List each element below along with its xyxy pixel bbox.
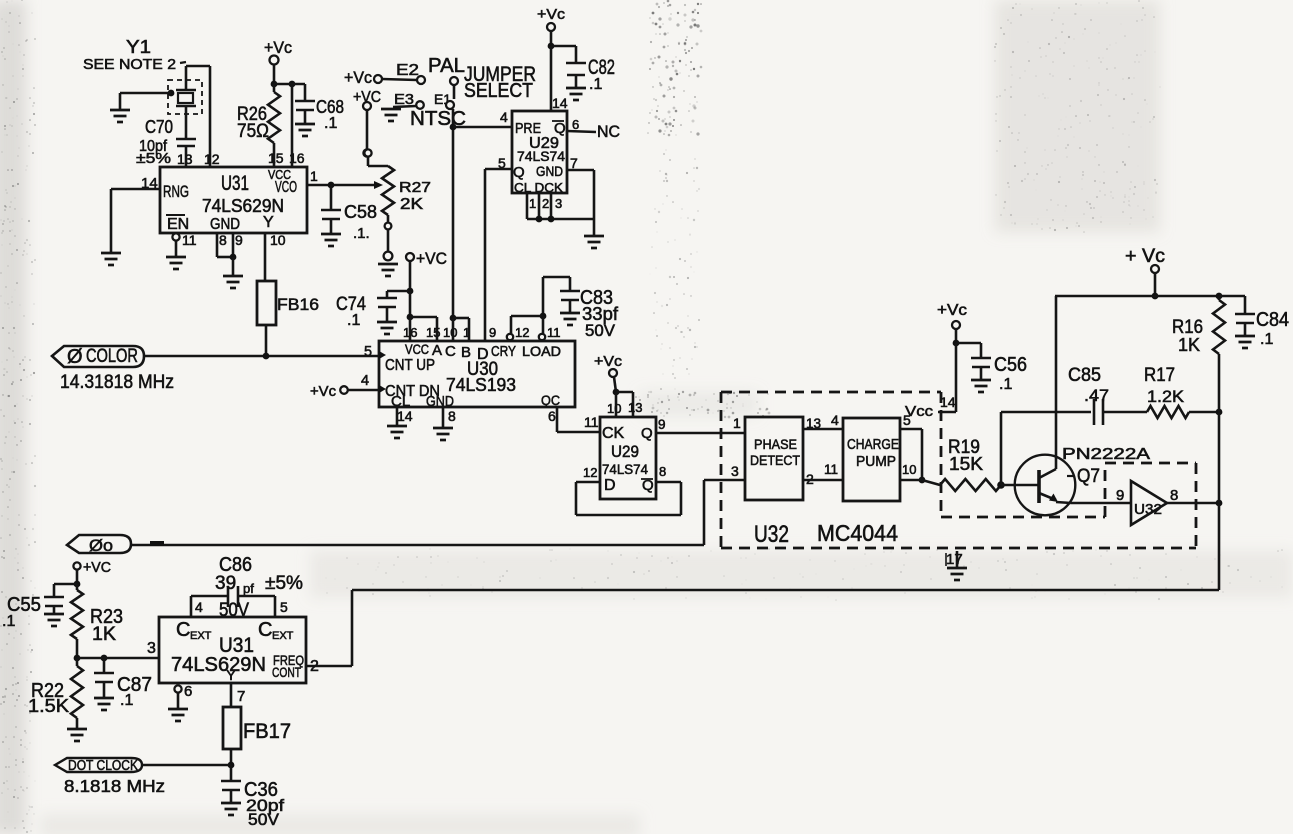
svg-text:10: 10 bbox=[443, 325, 457, 340]
svg-text:+VC: +VC bbox=[83, 559, 111, 576]
svg-text:14.31818 MHz: 14.31818 MHz bbox=[60, 372, 174, 393]
svg-text:CL DCK: CL DCK bbox=[514, 180, 563, 195]
svg-text:.1: .1 bbox=[324, 115, 337, 132]
svg-text:±5%: ±5% bbox=[136, 150, 171, 167]
svg-text:8: 8 bbox=[659, 464, 666, 479]
svg-text:12: 12 bbox=[515, 325, 529, 340]
svg-text:+Vc: +Vc bbox=[264, 38, 292, 57]
svg-text:+Vc: +Vc bbox=[310, 383, 336, 400]
svg-text:PUMP: PUMP bbox=[856, 453, 896, 470]
svg-text:.1: .1 bbox=[999, 376, 1012, 393]
svg-text:R27: R27 bbox=[399, 179, 431, 196]
svg-text:CK: CK bbox=[602, 425, 625, 442]
svg-text:FB17: FB17 bbox=[243, 720, 291, 743]
svg-text:2: 2 bbox=[310, 658, 319, 675]
svg-text:7: 7 bbox=[237, 688, 245, 705]
svg-text:Q: Q bbox=[513, 164, 525, 181]
svg-text:C: C bbox=[258, 619, 272, 641]
svg-text:C84: C84 bbox=[1256, 309, 1289, 331]
svg-text:15K: 15K bbox=[949, 454, 983, 474]
svg-text:+ Vc: + Vc bbox=[1125, 246, 1165, 267]
svg-text:6: 6 bbox=[548, 408, 556, 424]
svg-text:.1: .1 bbox=[589, 76, 602, 93]
svg-text:13: 13 bbox=[628, 400, 642, 415]
svg-text:MC4044: MC4044 bbox=[817, 520, 898, 546]
svg-text:Y: Y bbox=[263, 214, 274, 231]
svg-text:50V: 50V bbox=[585, 321, 616, 340]
svg-text:14: 14 bbox=[940, 394, 956, 410]
svg-text:3: 3 bbox=[147, 640, 156, 657]
svg-text:C85: C85 bbox=[1068, 365, 1101, 386]
svg-text:Q7: Q7 bbox=[1077, 466, 1100, 487]
svg-text:+Vc: +Vc bbox=[594, 353, 623, 370]
svg-text:D: D bbox=[604, 477, 616, 494]
svg-text:14: 14 bbox=[397, 408, 413, 424]
svg-text:+Vc: +Vc bbox=[344, 68, 372, 87]
svg-text:C56: C56 bbox=[994, 354, 1027, 376]
svg-text:VCO: VCO bbox=[275, 179, 297, 196]
svg-text:EXT: EXT bbox=[190, 630, 212, 642]
svg-text:FB16: FB16 bbox=[277, 295, 319, 314]
svg-text:10: 10 bbox=[902, 462, 916, 477]
svg-text:PAL: PAL bbox=[428, 55, 465, 77]
svg-text:.1: .1 bbox=[347, 312, 360, 329]
svg-text:74LS629N: 74LS629N bbox=[202, 196, 284, 216]
svg-text:9: 9 bbox=[235, 232, 243, 248]
svg-text:Vcc: Vcc bbox=[905, 403, 934, 420]
svg-text:COLOR: COLOR bbox=[86, 346, 138, 367]
svg-text:.1: .1 bbox=[1260, 331, 1273, 348]
svg-text:GND: GND bbox=[210, 216, 240, 233]
svg-text:1K: 1K bbox=[1178, 335, 1200, 355]
svg-text:CONT: CONT bbox=[272, 664, 301, 680]
svg-text:74LS193: 74LS193 bbox=[446, 375, 516, 395]
svg-text:.1.: .1. bbox=[353, 225, 370, 242]
svg-text:DOT CLOCK: DOT CLOCK bbox=[68, 758, 138, 774]
svg-text:C: C bbox=[176, 619, 190, 641]
svg-text:Q: Q bbox=[641, 425, 653, 442]
svg-text:8: 8 bbox=[448, 408, 456, 424]
svg-text:8: 8 bbox=[1170, 487, 1178, 504]
svg-text:U32: U32 bbox=[754, 521, 789, 548]
svg-text:5: 5 bbox=[364, 344, 372, 360]
svg-text:EN: EN bbox=[167, 216, 189, 233]
svg-text:12: 12 bbox=[204, 151, 220, 167]
svg-text:14: 14 bbox=[552, 95, 568, 111]
svg-text:±5%: ±5% bbox=[265, 573, 303, 594]
svg-text:U29: U29 bbox=[611, 442, 639, 461]
svg-text:DETECT: DETECT bbox=[750, 452, 800, 468]
svg-text:QC: QC bbox=[541, 392, 560, 408]
svg-text:PN2222A: PN2222A bbox=[1062, 446, 1150, 463]
svg-text:1: 1 bbox=[529, 196, 536, 211]
svg-text:C70: C70 bbox=[145, 117, 173, 137]
svg-text:SEE NOTE 2: SEE NOTE 2 bbox=[83, 56, 176, 73]
svg-text:11: 11 bbox=[547, 325, 561, 340]
svg-text:R17: R17 bbox=[1144, 365, 1175, 386]
svg-text:pf: pf bbox=[243, 581, 254, 596]
svg-text:CNT UP: CNT UP bbox=[385, 357, 435, 374]
svg-text:11: 11 bbox=[182, 232, 197, 248]
svg-text:GND: GND bbox=[536, 163, 563, 179]
svg-text:10: 10 bbox=[270, 232, 286, 248]
svg-text:12: 12 bbox=[583, 465, 597, 480]
svg-text:7: 7 bbox=[570, 155, 578, 171]
svg-text:U32: U32 bbox=[1134, 501, 1162, 518]
svg-text:+Vc: +Vc bbox=[537, 6, 566, 23]
svg-text:PHASE: PHASE bbox=[754, 436, 797, 452]
svg-text:39: 39 bbox=[215, 573, 236, 594]
svg-text:1: 1 bbox=[310, 168, 318, 184]
svg-text:15: 15 bbox=[268, 150, 284, 166]
svg-text:10: 10 bbox=[607, 401, 621, 416]
svg-text:11: 11 bbox=[584, 414, 599, 430]
svg-text:1.2K: 1.2K bbox=[1147, 387, 1185, 406]
svg-text:SELECT: SELECT bbox=[464, 80, 533, 102]
svg-text:Y1: Y1 bbox=[126, 37, 151, 57]
svg-text:3: 3 bbox=[555, 196, 562, 211]
svg-text:LOAD: LOAD bbox=[522, 343, 561, 359]
svg-text:3: 3 bbox=[731, 463, 739, 479]
svg-text:13: 13 bbox=[177, 151, 193, 167]
svg-text:8: 8 bbox=[219, 232, 227, 248]
svg-text:Ø: Ø bbox=[67, 346, 83, 368]
svg-text:.1: .1 bbox=[2, 613, 15, 630]
svg-text:CHARGE: CHARGE bbox=[847, 437, 899, 453]
svg-text:4: 4 bbox=[195, 599, 203, 615]
svg-text:1: 1 bbox=[733, 415, 741, 431]
svg-text:4: 4 bbox=[831, 412, 839, 428]
svg-text:17: 17 bbox=[946, 551, 963, 568]
svg-text:Y: Y bbox=[226, 667, 236, 684]
svg-text:Øo: Øo bbox=[89, 536, 113, 555]
svg-text:1K: 1K bbox=[92, 624, 116, 645]
svg-text:VCC: VCC bbox=[405, 342, 429, 357]
svg-text:RNG: RNG bbox=[163, 182, 189, 201]
svg-text:6: 6 bbox=[572, 117, 579, 132]
svg-text:9: 9 bbox=[1116, 487, 1124, 504]
svg-text:+VC: +VC bbox=[416, 249, 447, 268]
svg-text:74LS74: 74LS74 bbox=[602, 461, 648, 477]
svg-text:E2: E2 bbox=[396, 62, 419, 79]
svg-text:5: 5 bbox=[280, 599, 288, 615]
svg-text:6: 6 bbox=[184, 683, 192, 700]
svg-text:C58: C58 bbox=[344, 202, 377, 222]
svg-text:C68: C68 bbox=[316, 97, 344, 117]
svg-text:U31: U31 bbox=[221, 172, 249, 195]
svg-text:4: 4 bbox=[500, 109, 508, 125]
svg-text:75Ω: 75Ω bbox=[237, 121, 269, 142]
svg-text:8.1818 MHz: 8.1818 MHz bbox=[64, 776, 165, 796]
svg-text:74LS629N: 74LS629N bbox=[171, 654, 266, 676]
svg-text:74LS74: 74LS74 bbox=[517, 148, 565, 164]
svg-text:50V: 50V bbox=[248, 810, 280, 829]
svg-text:NC: NC bbox=[597, 122, 620, 141]
svg-text:CRY: CRY bbox=[491, 343, 516, 360]
svg-text:1.5K: 1.5K bbox=[28, 696, 69, 716]
svg-text:4: 4 bbox=[361, 373, 369, 389]
svg-text:C: C bbox=[445, 343, 456, 360]
svg-text:2: 2 bbox=[542, 196, 549, 211]
svg-text:2K: 2K bbox=[400, 196, 424, 213]
svg-text:+Vc: +Vc bbox=[937, 302, 967, 319]
svg-text:EXT: EXT bbox=[272, 630, 294, 642]
svg-text:9: 9 bbox=[658, 417, 666, 432]
svg-text:.47: .47 bbox=[1084, 386, 1109, 405]
svg-text:9: 9 bbox=[489, 325, 496, 340]
svg-text:11: 11 bbox=[824, 462, 838, 477]
svg-text:.1: .1 bbox=[120, 692, 133, 709]
